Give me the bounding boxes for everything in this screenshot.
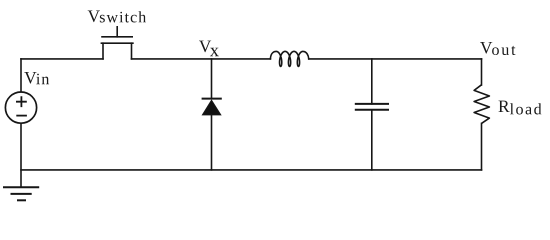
wire top rail right (inductor to Vout corner) [309, 58, 482, 60]
capacitor C1 [356, 104, 388, 110]
label Rload [499, 101, 542, 115]
ground [4, 187, 38, 200]
voltage source Vin [5, 92, 36, 123]
wire right vertical lower (Rload to bottom rail) [481, 123, 483, 169]
wire left vertical upper (rail to Vin source) [20, 59, 22, 92]
transistor Vswitch (MOSFET switch) [101, 27, 132, 59]
wire diode branch lower [211, 115, 213, 170]
label Vswitch [88, 11, 146, 23]
label Vin [24, 72, 49, 84]
wire diode branch upper [211, 59, 213, 99]
wire top rail middle (switch to inductor, node Vx) [132, 58, 271, 60]
wire capacitor branch upper [371, 59, 373, 104]
wire capacitor branch lower [371, 110, 373, 170]
inductor L1 [270, 51, 308, 66]
wire bottom rail [21, 169, 482, 171]
wire left vertical lower (source to ground node) [20, 124, 22, 188]
label Vout [480, 42, 515, 55]
wire right vertical upper (Vout corner to Rload) [481, 59, 483, 85]
diode D1 [203, 99, 221, 115]
label node Vx [199, 41, 219, 57]
wire top rail left (Vin corner to switch) [21, 58, 103, 60]
resistor Rload [474, 85, 489, 124]
